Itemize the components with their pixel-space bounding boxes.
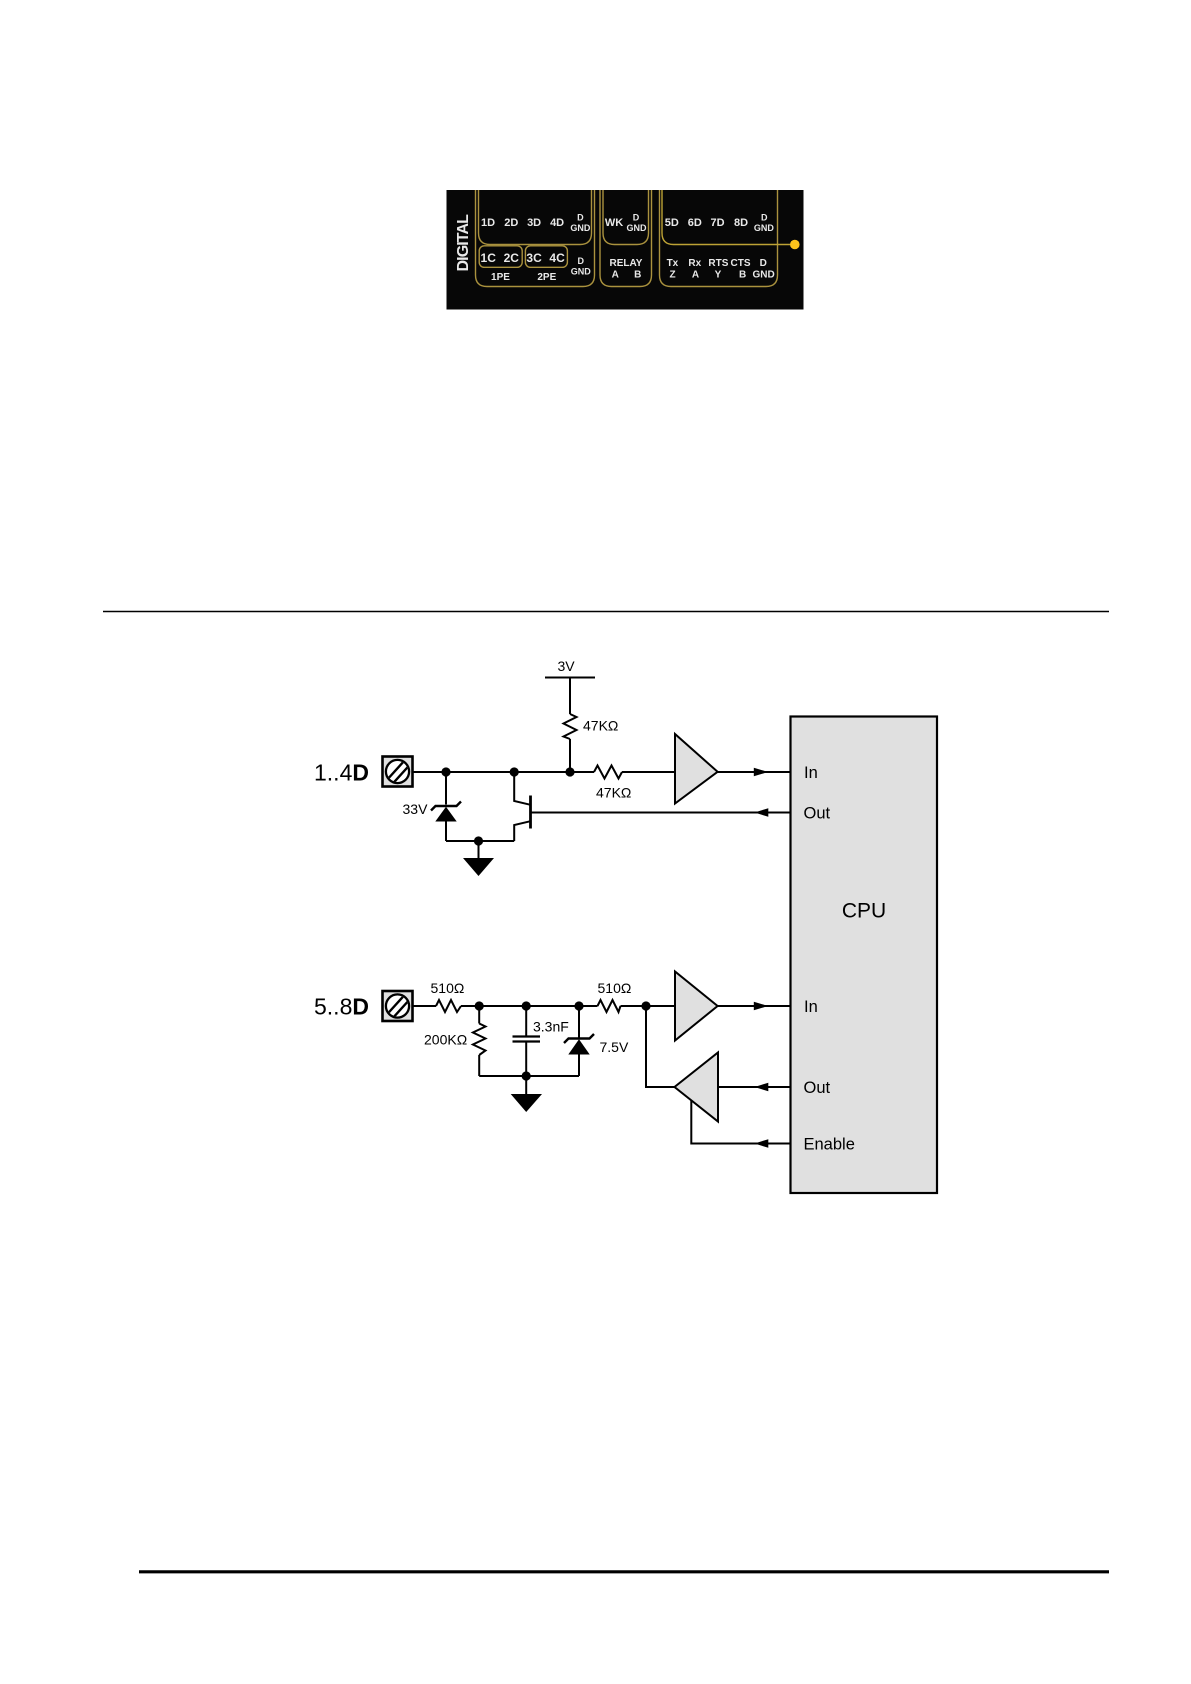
resistor 200K branch wire xyxy=(478,1006,480,1024)
svg-text:B: B xyxy=(739,270,746,281)
svg-text:33V: 33V xyxy=(403,801,429,817)
svg-text:5D: 5D xyxy=(665,217,679,229)
group 1PE/2PE outer outline xyxy=(476,186,595,287)
wire ground stub xyxy=(478,841,480,858)
wire buffer2 to CPU In xyxy=(718,1005,791,1007)
svg-text:CPU: CPU xyxy=(842,900,886,923)
arrow Out 1 xyxy=(755,808,769,817)
svg-text:8D: 8D xyxy=(734,217,748,229)
group RELAY inner outline (WK row) xyxy=(603,186,649,245)
enable wire xyxy=(691,1101,790,1144)
wire terminal 5..8D to resistor xyxy=(413,1005,437,1007)
transistor Q1 drain stub xyxy=(514,772,530,805)
arrow Out 2 xyxy=(755,1083,769,1092)
node capacitor xyxy=(522,1001,531,1010)
node pull-up xyxy=(565,767,574,776)
svg-text:200KΩ: 200KΩ xyxy=(424,1032,467,1048)
bottom rail of input clamp xyxy=(446,840,514,842)
arrows at CPU pins xyxy=(754,768,769,1148)
ground stub 2 xyxy=(525,1076,527,1094)
box 3C 4C xyxy=(525,246,567,267)
terminal 5..8D xyxy=(383,991,413,1021)
node drain branch xyxy=(510,767,519,776)
arrow Enable xyxy=(755,1139,769,1148)
ground symbol 1 xyxy=(463,858,494,876)
group RELAY outer outline xyxy=(600,186,652,287)
wire buffer to CPU In xyxy=(718,771,791,773)
zener diode 7.5V xyxy=(564,1034,594,1055)
svg-text:DIGITAL: DIGITAL xyxy=(455,214,472,272)
wire zener to bottom rail xyxy=(445,822,447,842)
pin labels 1D-4D xyxy=(481,217,564,229)
svg-text:3D: 3D xyxy=(527,217,541,229)
svg-text:GND: GND xyxy=(754,223,775,233)
zener diode 33V xyxy=(431,802,461,822)
pin labels 1C-4C xyxy=(481,251,566,265)
capacitor branch wire xyxy=(525,1006,527,1036)
svg-text:47KΩ: 47KΩ xyxy=(583,718,618,734)
svg-text:1D: 1D xyxy=(481,217,495,229)
svg-text:2PE: 2PE xyxy=(537,272,556,283)
arrow In 2 xyxy=(754,1002,768,1011)
wire 200K to bottom rail xyxy=(478,1055,480,1076)
svg-text:D: D xyxy=(760,258,767,269)
group 1 inner outline (1D-4D row) xyxy=(479,186,592,245)
svg-text:5..8D: 5..8D xyxy=(314,994,369,1020)
svg-text:D: D xyxy=(577,213,584,223)
buffer U2 input 5..8D xyxy=(675,972,718,1041)
svg-text:GND: GND xyxy=(752,270,774,281)
resistor 510 input xyxy=(436,1000,461,1012)
svg-text:510Ω: 510Ω xyxy=(431,980,465,996)
svg-text:7.5V: 7.5V xyxy=(600,1039,629,1055)
svg-text:Out: Out xyxy=(804,805,831,823)
D GND label group1 bottom xyxy=(571,256,592,277)
node zener branch xyxy=(441,767,450,776)
transistor Q1 channel bar xyxy=(529,796,532,829)
transistor Q1 source stub xyxy=(514,821,530,841)
svg-text:CTS: CTS xyxy=(731,258,751,269)
svg-text:3C: 3C xyxy=(526,251,542,265)
gate wire to CPU Out xyxy=(531,812,791,814)
group serial inner outline (5D-8D row) with lead to dot xyxy=(662,186,790,245)
svg-text:Rx: Rx xyxy=(688,258,701,269)
svg-text:GND: GND xyxy=(570,223,591,233)
pin labels 5D-8D xyxy=(665,217,748,229)
serial row labels Z A Y B GND xyxy=(669,270,774,281)
wire 3V to resistor xyxy=(569,678,571,715)
svg-text:D: D xyxy=(761,213,768,223)
resistor 47K series xyxy=(594,766,622,779)
wire terminal 1..4D to resistor xyxy=(413,771,595,773)
svg-text:1..4D: 1..4D xyxy=(314,760,369,786)
bottom rail of filter xyxy=(479,1075,579,1077)
svg-text:GND: GND xyxy=(627,223,648,233)
CPU block U4 xyxy=(791,717,938,1194)
svg-text:Out: Out xyxy=(804,1079,831,1097)
svg-text:D: D xyxy=(577,256,584,266)
ground symbol 2 xyxy=(511,1094,542,1112)
serial row labels Tx Rx RTS CTS D xyxy=(667,258,767,269)
resistor 200K xyxy=(473,1024,486,1056)
svg-text:3.3nF: 3.3nF xyxy=(533,1019,569,1035)
D GND label group3 top xyxy=(754,213,775,234)
buffer U3 output (tri-state) xyxy=(675,1053,719,1122)
svg-text:Z: Z xyxy=(669,270,675,281)
arrow In 1 xyxy=(754,768,768,777)
wire resistor to node xyxy=(569,739,571,772)
svg-text:1C: 1C xyxy=(481,251,497,265)
group serial outer outline xyxy=(660,186,778,287)
svg-text:Y: Y xyxy=(715,270,722,281)
zener 7.5V branch wire xyxy=(578,1006,580,1039)
wire zener branch xyxy=(445,772,447,805)
wire CPU Out to buffer3 xyxy=(718,1086,791,1088)
svg-text:Tx: Tx xyxy=(667,258,679,269)
yellow indicator dot xyxy=(790,240,800,250)
svg-text:1PE: 1PE xyxy=(491,272,510,283)
svg-text:2D: 2D xyxy=(504,217,518,229)
connector label panel (DIGITAL) xyxy=(447,186,804,310)
svg-text:In: In xyxy=(804,998,818,1016)
D GND label group1 top xyxy=(570,213,591,234)
svg-text:RELAY: RELAY xyxy=(610,258,643,269)
wire to second resistor xyxy=(461,1005,598,1007)
svg-text:B: B xyxy=(634,270,641,281)
svg-text:7D: 7D xyxy=(710,217,724,229)
svg-text:2C: 2C xyxy=(504,251,520,265)
capacitor to bottom rail xyxy=(525,1042,527,1077)
node zener2 xyxy=(574,1001,583,1010)
D GND label group2 top xyxy=(627,213,648,234)
svg-text:GND: GND xyxy=(571,267,592,277)
node filter rail xyxy=(522,1071,531,1080)
svg-text:4D: 4D xyxy=(550,217,564,229)
feedback wire from output buffer xyxy=(646,1006,675,1087)
svg-text:RTS: RTS xyxy=(708,258,728,269)
node clamp rail xyxy=(474,836,483,845)
1PE 2PE labels xyxy=(491,272,557,283)
node 200K xyxy=(475,1001,484,1010)
svg-text:47KΩ: 47KΩ xyxy=(596,785,631,801)
svg-text:510Ω: 510Ω xyxy=(598,980,632,996)
section divider rule xyxy=(103,611,1109,613)
schematic wires and parts xyxy=(413,678,791,1144)
wire resistor to buffer xyxy=(622,771,675,773)
svg-text:Enable: Enable xyxy=(804,1136,855,1154)
box 1C 2C xyxy=(479,246,522,267)
wire resistor to buffer2 xyxy=(621,1005,676,1007)
svg-text:4C: 4C xyxy=(549,251,565,265)
junction dots xyxy=(441,767,650,1080)
svg-text:D: D xyxy=(633,213,640,223)
footer rule xyxy=(139,1570,1109,1573)
buffer U1 input 1..4D xyxy=(675,734,718,804)
terminal 1..4D xyxy=(383,757,413,787)
node feedback xyxy=(641,1001,650,1010)
svg-text:In: In xyxy=(804,764,818,782)
3V supply rail xyxy=(545,677,595,679)
svg-text:3V: 3V xyxy=(557,658,575,674)
zener 7.5V to bottom rail xyxy=(578,1055,580,1077)
svg-text:WK: WK xyxy=(605,217,623,229)
svg-text:A: A xyxy=(692,270,699,281)
resistor 47K pull-up xyxy=(564,714,577,739)
svg-text:A: A xyxy=(612,270,619,281)
resistor 510 series xyxy=(598,1000,621,1012)
capacitor 3.3nF plates xyxy=(513,1035,541,1037)
svg-text:6D: 6D xyxy=(688,217,702,229)
